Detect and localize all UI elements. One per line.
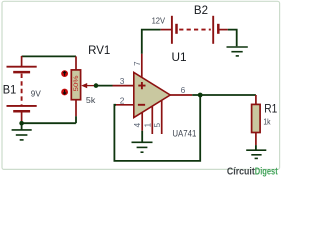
RV1 increment button [61, 70, 68, 77]
page border frame [2, 1, 280, 169]
ground (U1) [132, 142, 153, 152]
node junction output [198, 93, 203, 98]
svg-text:2: 2 [120, 95, 125, 105]
svg-text:Círcuit: Círcuit [227, 167, 255, 178]
U1 pin 5 stub [161, 100, 163, 134]
RV1 decrement button [61, 89, 68, 96]
battery B1 [7, 56, 37, 123]
op-amp U1 [134, 72, 170, 117]
ground (B2) [227, 47, 248, 56]
node junction RV1 wiper [94, 83, 99, 88]
potentiometer RV1 [71, 56, 80, 123]
wire B1+ top to RV1 pin1 [22, 55, 76, 57]
wire wiper to U1 pin3 [96, 85, 113, 87]
CircuitDigest watermark [227, 167, 278, 178]
wire B1- to RV1 pin2 [22, 122, 76, 124]
svg-text:U1: U1 [172, 50, 187, 64]
svg-text:1k: 1k [263, 116, 271, 126]
U1 pin 1 stub [151, 106, 153, 134]
ground (bottom-left) [12, 123, 32, 140]
U1 pin 2 stub [115, 104, 134, 106]
resistor R1 [252, 95, 261, 145]
node junction B1- / ground [19, 121, 24, 126]
svg-text:5: 5 [153, 122, 162, 127]
wire U1 pin7 to B2+ [142, 30, 161, 54]
battery B2 [161, 16, 228, 44]
wire feedback output to pin2 [114, 95, 200, 161]
wire R1 to ground [255, 145, 257, 150]
svg-text:B1: B1 [3, 82, 17, 96]
svg-text:1: 1 [143, 122, 152, 127]
svg-text:RV1: RV1 [88, 43, 110, 57]
U1 pin 6 stub (output) [170, 94, 192, 96]
svg-text:UA741: UA741 [172, 127, 196, 138]
svg-text:Digest: Digest [255, 167, 278, 178]
svg-text:B2: B2 [194, 3, 208, 17]
U1 pin 4 stub [141, 112, 143, 130]
svg-text:12V: 12V [152, 15, 166, 25]
svg-text:4: 4 [133, 122, 142, 127]
svg-text:6: 6 [181, 85, 186, 95]
wire pin4 to ground [141, 131, 143, 142]
U1 pin 3 stub [113, 85, 135, 87]
wire B2- to ground [228, 30, 237, 47]
svg-text:7: 7 [133, 61, 142, 66]
svg-text:R1: R1 [264, 102, 277, 116]
svg-text:9V: 9V [31, 88, 41, 98]
wire output to R1 [192, 94, 256, 96]
U1 pin 7 stub [141, 54, 143, 78]
ground (R1) [246, 150, 266, 158]
svg-text:5k: 5k [86, 95, 96, 105]
RV1 wiper arrow [81, 83, 96, 88]
svg-text:3: 3 [120, 76, 125, 86]
svg-text:50%: 50% [73, 75, 80, 92]
